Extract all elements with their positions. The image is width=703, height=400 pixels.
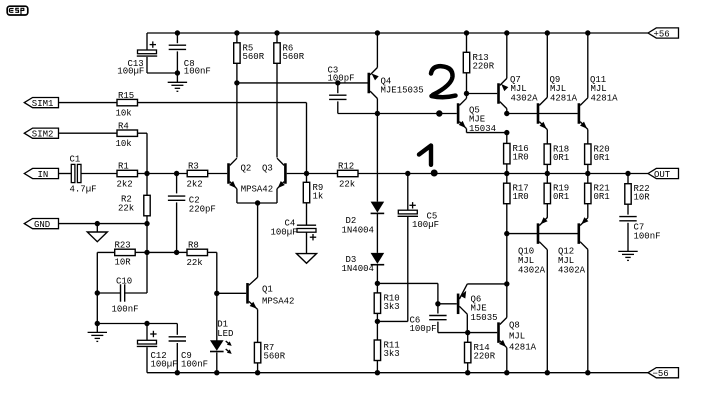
svg-text:SIM1: SIM1: [32, 99, 54, 109]
resistor R21: [587, 174, 589, 184]
svg-text:MPSA42: MPSA42: [241, 184, 273, 194]
svg-text:4281A: 4281A: [550, 93, 578, 103]
wire: [438, 303, 457, 305]
wire: [96, 224, 98, 232]
transistor Q10: [537, 223, 540, 244]
node: [304, 171, 309, 176]
transistor Q4: [368, 73, 371, 94]
ground: [88, 331, 107, 333]
wire: [146, 252, 148, 293]
node: [504, 370, 509, 375]
wire Q7 base: [467, 93, 498, 95]
wire: [257, 363, 259, 373]
annotation 1: [419, 146, 431, 165]
svg-text:R23: R23: [115, 240, 131, 250]
svg-text:R12: R12: [338, 162, 354, 172]
wire: [96, 252, 98, 323]
svg-text:1N4004: 1N4004: [342, 264, 374, 274]
node: [504, 231, 509, 236]
capacitor C8: [176, 33, 178, 43]
svg-text:100µF: 100µF: [151, 359, 178, 369]
svg-text:15035: 15035: [471, 313, 498, 323]
ESP logo: [7, 6, 28, 15]
SIM2 tag: [24, 128, 58, 138]
svg-text:MJL: MJL: [558, 256, 574, 266]
svg-text:Q2: Q2: [241, 163, 252, 173]
wire: [59, 173, 72, 175]
node: [144, 250, 149, 255]
node: [465, 330, 470, 335]
capacitor C10: [120, 284, 122, 301]
wire: [81, 173, 117, 175]
wire: [59, 102, 118, 104]
svg-text:4302A: 4302A: [558, 266, 586, 276]
svg-text:100nF: 100nF: [634, 232, 661, 242]
svg-text:MJL: MJL: [509, 332, 525, 342]
node: [375, 281, 380, 286]
capacitor C4: [297, 224, 316, 226]
wire: [97, 292, 120, 294]
svg-text:100pF: 100pF: [410, 324, 437, 334]
svg-text:Q8: Q8: [509, 321, 520, 331]
node: [375, 30, 380, 35]
svg-text:0R1: 0R1: [594, 192, 610, 202]
resistor R11: [374, 340, 380, 361]
-56 tag: [648, 368, 679, 378]
svg-text:MJL: MJL: [518, 256, 534, 266]
svg-text:10k: 10k: [116, 139, 132, 149]
wire: [507, 233, 578, 235]
capacitor C2: [176, 174, 178, 194]
node: [174, 250, 179, 255]
capacitor C7: [627, 204, 629, 214]
+56 V top rail wire: [147, 32, 648, 34]
svg-text:4281A: 4281A: [509, 343, 537, 353]
resistor R22: [627, 174, 629, 184]
svg-text:1R0: 1R0: [513, 192, 529, 202]
svg-text:LED: LED: [217, 329, 233, 339]
wire: [237, 82, 368, 84]
node: [504, 30, 509, 35]
svg-text:Q1: Q1: [262, 284, 273, 294]
node: [435, 301, 440, 306]
svg-text:10k: 10k: [116, 108, 132, 118]
node: [504, 130, 509, 135]
svg-text:Q10: Q10: [518, 247, 534, 257]
svg-text:100nF: 100nF: [112, 304, 139, 314]
svg-text:IN: IN: [38, 170, 49, 180]
svg-text:560R: 560R: [243, 52, 265, 62]
wire: [377, 320, 407, 322]
capacitor C6: [437, 304, 439, 314]
wire: [306, 232, 308, 253]
wire Q5 base: [377, 113, 456, 115]
wire: [138, 132, 148, 134]
transistor Q6: [457, 294, 460, 315]
resistor R1: [117, 170, 138, 176]
ground: [297, 254, 317, 264]
wire: [276, 63, 278, 157]
resistor R12: [338, 170, 359, 176]
resistor R23: [115, 249, 136, 255]
svg-text:R3: R3: [188, 162, 199, 172]
wire: [587, 164, 589, 173]
node: [504, 171, 509, 176]
node: [175, 30, 180, 35]
svg-text:MJE15035: MJE15035: [381, 86, 424, 96]
node: [585, 30, 590, 35]
svg-text:4.7µF: 4.7µF: [70, 185, 97, 195]
node: [504, 281, 509, 286]
svg-text:Q3: Q3: [262, 163, 273, 173]
svg-text:1k: 1k: [313, 191, 324, 201]
svg-text:GND: GND: [34, 220, 50, 230]
transistor Q1: [246, 283, 249, 304]
transistor Q7: [497, 83, 500, 104]
svg-text:10R: 10R: [634, 193, 651, 203]
svg-text:2k2: 2k2: [187, 179, 203, 189]
-56 V bottom rail wire: [147, 372, 648, 374]
node: [375, 370, 380, 375]
LED D1: [210, 340, 224, 350]
wire: [506, 204, 508, 284]
svg-text:4302A: 4302A: [518, 266, 546, 276]
svg-text:3k3: 3k3: [384, 302, 400, 312]
svg-text:100µF: 100µF: [271, 227, 298, 237]
wire: [59, 223, 148, 225]
resistor R7: [254, 342, 260, 363]
wire: [177, 251, 187, 253]
svg-text:22k: 22k: [187, 258, 203, 268]
node: [214, 291, 219, 296]
node: [464, 30, 469, 35]
node: [375, 111, 380, 116]
svg-text:OUT: OUT: [654, 170, 671, 180]
node: [144, 221, 149, 226]
svg-text:R8: R8: [188, 240, 199, 250]
svg-text:100pF: 100pF: [328, 73, 355, 83]
wire: [506, 164, 508, 174]
transistor Q11: [578, 103, 581, 124]
svg-text:−56: −56: [653, 369, 669, 379]
resistor R13: [466, 33, 468, 52]
svg-text:220R: 220R: [474, 351, 496, 361]
node: [274, 30, 279, 35]
capacitor C3: [337, 83, 339, 93]
svg-text:100nF: 100nF: [181, 359, 208, 369]
svg-text:100nF: 100nF: [184, 66, 211, 76]
resistor R14: [467, 333, 469, 343]
svg-text:560R: 560R: [283, 52, 305, 62]
resistor R19: [546, 174, 548, 184]
wire: [306, 203, 308, 225]
wire: [546, 164, 548, 173]
node: [234, 80, 239, 85]
svg-text:22k: 22k: [339, 179, 355, 189]
svg-text:R4: R4: [118, 121, 129, 131]
node: [175, 370, 180, 375]
wire: [376, 361, 378, 373]
wire: [138, 102, 307, 104]
node: [545, 370, 550, 375]
IN tag: [24, 168, 58, 178]
capacitor C9: [176, 324, 178, 335]
wire: [236, 63, 238, 157]
svg-text:10R: 10R: [115, 258, 132, 268]
resistor R3: [187, 170, 208, 176]
wire Q5 emitter: [467, 132, 507, 134]
capacitor C1: [71, 164, 75, 182]
wire: [96, 324, 98, 333]
svg-text:220R: 220R: [473, 61, 495, 71]
ground: [618, 250, 637, 252]
svg-text:560R: 560R: [264, 351, 286, 361]
svg-text:22k: 22k: [118, 203, 134, 213]
wire: [217, 292, 246, 294]
node: [255, 370, 260, 375]
node: [174, 171, 179, 176]
svg-text:0R1: 0R1: [594, 153, 610, 163]
OUT mid rail wire: [358, 173, 648, 175]
svg-text:220pF: 220pF: [189, 205, 216, 215]
node: [585, 370, 590, 375]
node: [214, 370, 219, 375]
wire: [147, 251, 177, 253]
svg-text:SIM2: SIM2: [32, 130, 54, 140]
svg-text:+56: +56: [654, 29, 670, 39]
svg-text:C1: C1: [70, 155, 81, 165]
annotation 2: [431, 66, 453, 95]
svg-text:0R1: 0R1: [553, 192, 569, 202]
svg-text:100µF: 100µF: [117, 66, 144, 76]
resistor R16: [506, 133, 508, 144]
svg-text:100µF: 100µF: [412, 220, 439, 230]
node: [545, 171, 550, 176]
transistor Q9: [537, 103, 540, 124]
node: [504, 111, 509, 116]
wire: [376, 265, 378, 283]
resistor R18: [544, 144, 550, 165]
resistor R15: [117, 99, 138, 105]
wire: [135, 251, 147, 253]
node: [335, 80, 340, 85]
wire: [125, 292, 147, 294]
svg-text:2k2: 2k2: [117, 179, 133, 189]
wire: [146, 224, 148, 253]
wire: [287, 173, 338, 175]
svg-text:3k3: 3k3: [384, 349, 400, 359]
+56 tag: [648, 28, 679, 38]
resistor R9: [306, 174, 308, 183]
wire: [376, 114, 378, 202]
node: [95, 290, 100, 295]
node: [234, 30, 239, 35]
SIM1 tag: [24, 98, 58, 108]
OUT tag: [648, 168, 679, 178]
svg-text:4302A: 4302A: [511, 93, 539, 103]
ground: [87, 232, 107, 242]
resistor R4: [117, 130, 138, 136]
diode D3: [371, 253, 385, 264]
svg-text:4281A: 4281A: [591, 93, 619, 103]
capacitor C12: [146, 324, 148, 341]
node: [585, 171, 590, 176]
resistor R8: [187, 249, 208, 255]
transistor Q12: [578, 223, 581, 244]
node: [255, 200, 260, 205]
ground: [168, 81, 187, 83]
node: [175, 70, 180, 75]
resistor R6: [276, 33, 278, 43]
node: [375, 319, 380, 324]
node: [405, 171, 410, 176]
wire: [377, 282, 438, 284]
wire: [97, 251, 114, 253]
svg-text:R1: R1: [118, 162, 129, 172]
capacitor C5: [407, 174, 409, 211]
resistor R5: [236, 33, 238, 43]
node: [144, 321, 149, 326]
wire: [208, 173, 228, 175]
node: [545, 30, 550, 35]
diode D2: [371, 202, 385, 213]
svg-text:MPSA42: MPSA42: [262, 296, 294, 306]
wire: [97, 323, 177, 325]
wire: [546, 204, 548, 218]
wire: [376, 313, 378, 340]
node: [465, 370, 470, 375]
transistor Q3: [284, 163, 287, 184]
wire tail: [237, 202, 277, 204]
wire: [467, 363, 469, 373]
svg-text:C10: C10: [116, 276, 132, 286]
capacitor C13: [146, 33, 148, 50]
resistor R2: [146, 174, 148, 196]
wire: [468, 332, 498, 334]
wire: [208, 251, 217, 253]
svg-text:1N4004: 1N4004: [342, 225, 374, 235]
svg-text:Q12: Q12: [558, 247, 574, 257]
svg-text:R15: R15: [118, 91, 134, 101]
node: [95, 221, 100, 226]
wire: [466, 73, 468, 94]
transistor Q5: [457, 103, 460, 124]
wire: [216, 293, 218, 341]
resistor R20: [585, 144, 591, 165]
wire: [587, 204, 589, 218]
wire: [376, 214, 378, 253]
wire: [138, 173, 188, 175]
node J1: [144, 171, 149, 176]
node 2 marker: [436, 110, 442, 116]
wire: [216, 353, 218, 373]
svg-text:1R0: 1R0: [513, 152, 529, 162]
wire: [507, 113, 578, 115]
svg-text:0R1: 0R1: [553, 153, 569, 163]
node: [625, 171, 630, 176]
GND tag: [24, 219, 58, 229]
node: [95, 321, 100, 326]
resistor R17: [506, 174, 508, 184]
transistor Q8: [497, 322, 500, 343]
resistor R10: [376, 283, 378, 293]
node: [464, 91, 469, 96]
transistor Q2: [227, 163, 230, 184]
svg-text:D1: D1: [217, 319, 228, 329]
wire: [59, 132, 118, 134]
